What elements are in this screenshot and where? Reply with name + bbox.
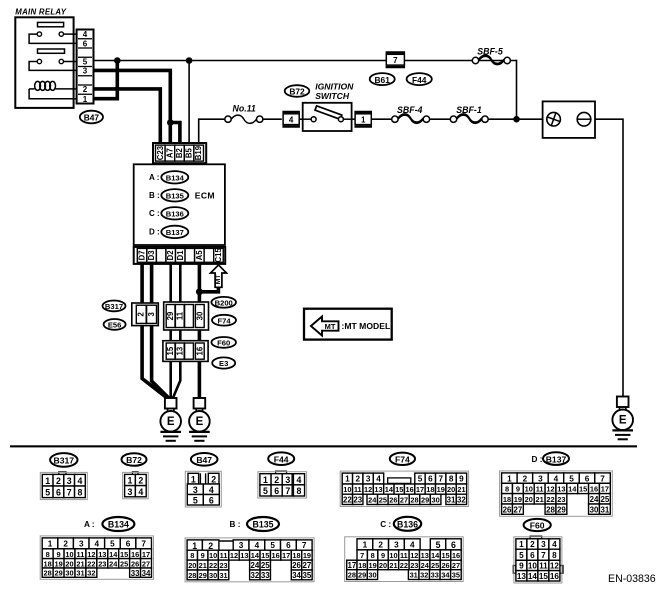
svg-text:33: 33 — [131, 569, 140, 578]
svg-text:F60: F60 — [217, 339, 230, 348]
svg-text:B317: B317 — [105, 302, 123, 311]
svg-text:11: 11 — [400, 551, 408, 560]
svg-text:B200: B200 — [215, 298, 233, 307]
svg-text:2: 2 — [63, 540, 68, 549]
svg-text:11: 11 — [175, 311, 184, 320]
svg-text:20: 20 — [379, 561, 387, 570]
svg-text:17: 17 — [347, 561, 356, 570]
svg-text:1: 1 — [48, 540, 53, 549]
svg-text:B72: B72 — [126, 455, 142, 465]
svg-text:B5: B5 — [185, 147, 194, 158]
svg-text:15: 15 — [579, 485, 587, 494]
svg-text:12: 12 — [546, 485, 554, 494]
svg-text:24: 24 — [368, 495, 377, 504]
svg-text:27: 27 — [514, 505, 523, 514]
svg-text:C :: C : — [149, 209, 160, 218]
svg-text:18: 18 — [358, 561, 366, 570]
svg-text:4: 4 — [554, 474, 559, 483]
svg-text:23: 23 — [557, 495, 565, 504]
svg-text:6: 6 — [209, 495, 214, 505]
svg-text:ECM: ECM — [195, 190, 215, 200]
svg-text:14: 14 — [528, 572, 538, 581]
svg-text:8: 8 — [552, 551, 557, 560]
svg-text:6: 6 — [83, 40, 88, 49]
svg-text:5: 5 — [193, 495, 198, 505]
svg-text:4: 4 — [138, 487, 143, 497]
svg-text:25: 25 — [261, 561, 270, 570]
svg-text:28: 28 — [410, 495, 418, 504]
svg-text:13: 13 — [374, 485, 382, 494]
svg-text:7: 7 — [141, 540, 146, 549]
svg-text:6: 6 — [126, 540, 131, 549]
svg-text:16: 16 — [195, 346, 204, 355]
svg-text:31: 31 — [447, 495, 456, 504]
svg-text:25: 25 — [431, 561, 439, 570]
svg-text:15: 15 — [120, 550, 128, 559]
svg-text:34: 34 — [292, 571, 301, 580]
svg-text:18: 18 — [426, 485, 434, 494]
svg-text:6: 6 — [274, 486, 279, 496]
svg-text:29: 29 — [421, 495, 429, 504]
svg-text:11: 11 — [220, 551, 228, 560]
svg-text:30: 30 — [368, 571, 376, 580]
svg-text:11: 11 — [77, 550, 85, 559]
svg-text:E: E — [167, 416, 175, 428]
svg-text:D7: D7 — [138, 250, 147, 260]
svg-text:14: 14 — [251, 551, 260, 560]
svg-text:5: 5 — [519, 551, 524, 560]
svg-text:B72: B72 — [289, 87, 305, 97]
svg-text::MT MODEL: :MT MODEL — [342, 321, 391, 331]
svg-text:1: 1 — [345, 475, 350, 484]
svg-text:19: 19 — [437, 485, 445, 494]
svg-text:15: 15 — [261, 551, 269, 560]
svg-text:1: 1 — [361, 115, 366, 124]
svg-text:2: 2 — [137, 311, 146, 316]
svg-text:31: 31 — [600, 505, 609, 514]
svg-text:2: 2 — [355, 475, 360, 484]
svg-text:D :: D : — [149, 228, 160, 237]
svg-text:13: 13 — [98, 550, 106, 559]
svg-text:A7: A7 — [165, 148, 174, 158]
svg-text:6: 6 — [56, 488, 61, 498]
svg-text:17: 17 — [282, 551, 290, 560]
svg-text:7: 7 — [393, 56, 398, 65]
svg-text:8: 8 — [297, 486, 302, 496]
svg-text:B137: B137 — [546, 454, 567, 464]
svg-text:B136: B136 — [397, 520, 418, 530]
svg-text:9: 9 — [201, 551, 205, 560]
svg-text:10: 10 — [209, 551, 217, 560]
svg-text:21: 21 — [389, 561, 397, 570]
svg-text:15: 15 — [166, 346, 175, 355]
svg-text:5: 5 — [263, 486, 268, 496]
svg-text:16: 16 — [272, 551, 280, 560]
svg-text:9: 9 — [516, 485, 520, 494]
svg-text:B135: B135 — [166, 191, 185, 200]
svg-text:3: 3 — [67, 476, 72, 486]
svg-text:30: 30 — [209, 571, 217, 580]
svg-text:8: 8 — [449, 475, 454, 484]
svg-text:C23: C23 — [156, 145, 165, 160]
svg-text:22: 22 — [343, 495, 352, 504]
svg-text:5: 5 — [270, 541, 275, 550]
svg-text:5: 5 — [45, 488, 50, 498]
svg-text:7: 7 — [360, 551, 364, 560]
svg-text:D1: D1 — [176, 250, 185, 261]
svg-text:6: 6 — [451, 540, 456, 550]
svg-text:29: 29 — [557, 505, 566, 514]
svg-text:31: 31 — [219, 571, 227, 580]
svg-text:E3: E3 — [219, 359, 228, 368]
svg-text:12: 12 — [87, 550, 95, 559]
svg-text:12: 12 — [410, 551, 418, 560]
svg-text:24: 24 — [250, 561, 259, 570]
svg-text:15: 15 — [441, 551, 449, 560]
svg-text:10: 10 — [525, 485, 533, 494]
svg-text:2: 2 — [530, 540, 535, 549]
svg-text:B2: B2 — [175, 147, 184, 158]
svg-text:11: 11 — [539, 562, 548, 571]
svg-text:B19: B19 — [194, 145, 203, 160]
svg-text:B :: B : — [149, 191, 160, 200]
svg-text:21: 21 — [199, 561, 207, 570]
svg-text:13: 13 — [557, 485, 565, 494]
svg-text:D :: D : — [532, 455, 543, 464]
svg-text:10: 10 — [65, 550, 73, 559]
svg-text:9: 9 — [459, 475, 464, 484]
svg-text:32: 32 — [420, 571, 428, 580]
svg-text:4: 4 — [289, 115, 294, 124]
svg-text:29: 29 — [166, 311, 175, 320]
svg-text:30: 30 — [590, 505, 599, 514]
svg-text:D3: D3 — [147, 250, 156, 261]
svg-text:20: 20 — [65, 559, 73, 568]
svg-text:MT: MT — [325, 322, 336, 331]
svg-text:MAIN RELAY: MAIN RELAY — [15, 7, 66, 16]
svg-text:6: 6 — [585, 474, 590, 483]
svg-text:15: 15 — [539, 572, 549, 581]
svg-text:19: 19 — [514, 495, 522, 504]
svg-text:1: 1 — [45, 476, 50, 486]
svg-text:8: 8 — [77, 488, 82, 498]
svg-text:31: 31 — [76, 569, 84, 578]
svg-text:27: 27 — [142, 559, 150, 568]
svg-text:7: 7 — [67, 488, 72, 498]
svg-text:3: 3 — [79, 540, 84, 549]
svg-text:21: 21 — [457, 485, 465, 494]
svg-text:2: 2 — [208, 541, 213, 551]
svg-text:3: 3 — [538, 474, 543, 483]
svg-text:14: 14 — [385, 485, 394, 494]
svg-text:8: 8 — [46, 550, 50, 559]
svg-text:24: 24 — [109, 559, 118, 568]
svg-text:9: 9 — [57, 550, 61, 559]
svg-text:SBF-4: SBF-4 — [397, 105, 423, 115]
svg-text:3: 3 — [128, 487, 133, 497]
svg-text:SBF-1: SBF-1 — [456, 105, 482, 115]
svg-text:13: 13 — [517, 572, 527, 581]
svg-text:16: 16 — [550, 572, 560, 581]
svg-text:EN-03836: EN-03836 — [608, 573, 656, 585]
svg-text:3: 3 — [394, 541, 399, 550]
svg-text:27: 27 — [452, 561, 460, 570]
svg-text:21: 21 — [536, 495, 544, 504]
svg-text:12: 12 — [364, 485, 372, 494]
svg-text:9: 9 — [519, 562, 524, 571]
svg-text:26: 26 — [389, 495, 397, 504]
svg-text:26: 26 — [131, 559, 139, 568]
svg-text:6: 6 — [530, 551, 535, 560]
svg-text:11: 11 — [536, 485, 544, 494]
svg-text:B137: B137 — [166, 228, 184, 237]
svg-text:11: 11 — [354, 485, 362, 494]
svg-text:4: 4 — [552, 540, 557, 549]
svg-text:10: 10 — [343, 485, 351, 494]
svg-text:C15: C15 — [214, 248, 223, 263]
svg-text:10: 10 — [528, 562, 538, 571]
svg-text:1: 1 — [263, 475, 268, 485]
svg-text:29: 29 — [358, 571, 366, 580]
svg-text:24: 24 — [590, 495, 599, 504]
svg-text:1: 1 — [128, 476, 133, 486]
svg-text:25: 25 — [379, 495, 387, 504]
svg-text:34: 34 — [441, 571, 450, 580]
svg-text:2: 2 — [138, 476, 143, 486]
svg-text:29: 29 — [54, 569, 62, 578]
svg-text:5: 5 — [418, 475, 423, 484]
svg-text:3: 3 — [239, 541, 244, 550]
svg-text:B317: B317 — [54, 456, 75, 466]
svg-text:18: 18 — [292, 551, 300, 560]
svg-text:34: 34 — [142, 569, 151, 578]
svg-text:15: 15 — [395, 485, 403, 494]
svg-text:B136: B136 — [166, 209, 184, 218]
svg-text:16: 16 — [590, 485, 598, 494]
svg-text:A5: A5 — [195, 250, 204, 261]
svg-text:16: 16 — [405, 485, 413, 494]
svg-text:19: 19 — [303, 551, 311, 560]
svg-text:19: 19 — [54, 559, 62, 568]
svg-text:4: 4 — [410, 541, 415, 550]
svg-text:3: 3 — [83, 67, 88, 76]
svg-text:F44: F44 — [274, 454, 289, 464]
svg-text:1: 1 — [191, 474, 196, 484]
svg-text:2: 2 — [523, 474, 528, 483]
svg-text:25: 25 — [120, 559, 128, 568]
svg-text:2: 2 — [83, 85, 88, 94]
svg-text:23: 23 — [410, 561, 418, 570]
svg-text:4: 4 — [255, 541, 260, 550]
svg-text:E: E — [196, 416, 204, 428]
svg-text:20: 20 — [447, 485, 455, 494]
svg-text:28: 28 — [348, 571, 356, 580]
svg-text:2: 2 — [211, 474, 216, 484]
svg-text:13: 13 — [240, 551, 248, 560]
svg-text:28: 28 — [188, 571, 196, 580]
svg-text:8: 8 — [505, 485, 509, 494]
svg-text:1: 1 — [507, 474, 512, 483]
svg-text:E56: E56 — [108, 321, 122, 330]
svg-text:B134: B134 — [166, 173, 185, 182]
svg-text:32: 32 — [250, 571, 259, 580]
svg-text:SWITCH: SWITCH — [315, 91, 350, 101]
svg-text:14: 14 — [109, 550, 118, 559]
svg-text:7: 7 — [438, 475, 443, 484]
svg-text:32: 32 — [457, 495, 466, 504]
svg-text:B :: B : — [230, 520, 241, 529]
svg-text:26: 26 — [441, 561, 449, 570]
svg-text:18: 18 — [44, 559, 52, 568]
svg-text:6: 6 — [428, 475, 433, 484]
svg-text:B47: B47 — [84, 113, 100, 123]
svg-text:17: 17 — [601, 485, 609, 494]
svg-text:23: 23 — [219, 561, 227, 570]
svg-text:1: 1 — [519, 540, 524, 549]
svg-text:17: 17 — [142, 550, 150, 559]
svg-text:3: 3 — [541, 540, 546, 549]
svg-text:A :: A : — [149, 173, 159, 182]
svg-text:13: 13 — [421, 551, 429, 560]
svg-text:24: 24 — [421, 561, 430, 570]
svg-text:28: 28 — [546, 505, 555, 514]
svg-text:3: 3 — [147, 311, 156, 316]
svg-text:12: 12 — [550, 562, 560, 571]
svg-text:22: 22 — [400, 561, 408, 570]
svg-text:18: 18 — [503, 495, 511, 504]
svg-text:3: 3 — [285, 475, 290, 485]
svg-text:7: 7 — [302, 541, 307, 550]
svg-text:8: 8 — [190, 551, 194, 560]
svg-text:No.11: No.11 — [233, 103, 256, 113]
svg-text:6: 6 — [286, 541, 291, 550]
svg-text:B134: B134 — [108, 520, 129, 530]
svg-text:17: 17 — [416, 485, 424, 494]
svg-text:22: 22 — [546, 495, 554, 504]
svg-text:5: 5 — [110, 540, 115, 549]
svg-text:35: 35 — [303, 571, 312, 580]
svg-text:28: 28 — [44, 569, 52, 578]
svg-text:SBF-5: SBF-5 — [477, 46, 503, 56]
svg-text:16: 16 — [131, 550, 139, 559]
svg-text:22: 22 — [209, 561, 217, 570]
svg-text:5: 5 — [83, 58, 88, 67]
svg-text:4: 4 — [376, 475, 381, 484]
svg-text:33: 33 — [431, 571, 439, 580]
svg-text:21: 21 — [76, 559, 84, 568]
svg-text:5: 5 — [436, 540, 441, 550]
svg-text:4: 4 — [83, 30, 88, 39]
svg-text:D2: D2 — [166, 250, 175, 261]
svg-text:7: 7 — [600, 474, 605, 483]
svg-text:16: 16 — [452, 551, 460, 560]
svg-text:4: 4 — [209, 485, 214, 495]
svg-text:30: 30 — [65, 569, 73, 578]
svg-text:B61: B61 — [375, 75, 391, 85]
svg-text:31: 31 — [410, 571, 418, 580]
svg-text:F74: F74 — [217, 316, 231, 325]
svg-text:20: 20 — [525, 495, 533, 504]
svg-text:IGNITION: IGNITION — [315, 81, 354, 91]
svg-text:27: 27 — [400, 495, 408, 504]
svg-text:13: 13 — [175, 346, 184, 355]
svg-text:9: 9 — [381, 551, 385, 560]
svg-text:MT: MT — [215, 274, 222, 285]
svg-text:29: 29 — [199, 571, 207, 580]
svg-text:14: 14 — [568, 485, 577, 494]
svg-text:26: 26 — [292, 561, 301, 570]
svg-text:27: 27 — [303, 561, 312, 570]
svg-text:12: 12 — [230, 551, 238, 560]
svg-text:19: 19 — [369, 561, 377, 570]
svg-text:23: 23 — [353, 495, 362, 504]
svg-text:F60: F60 — [530, 521, 545, 531]
svg-text:4: 4 — [77, 476, 82, 486]
svg-text:5: 5 — [569, 474, 574, 483]
svg-text:7: 7 — [285, 486, 290, 496]
svg-text:23: 23 — [98, 559, 106, 568]
svg-text:7: 7 — [541, 551, 546, 560]
svg-text:14: 14 — [431, 551, 440, 560]
svg-text:1: 1 — [83, 95, 88, 104]
svg-text:8: 8 — [371, 551, 375, 560]
svg-text:3: 3 — [193, 485, 198, 495]
svg-text:22: 22 — [87, 559, 95, 568]
svg-text:4: 4 — [297, 475, 302, 485]
svg-text:2: 2 — [56, 476, 61, 486]
svg-text:33: 33 — [261, 571, 270, 580]
svg-text:C :: C : — [380, 520, 391, 529]
svg-text:10: 10 — [389, 551, 397, 560]
svg-text:3: 3 — [366, 475, 371, 484]
svg-text:30: 30 — [195, 311, 204, 320]
svg-text:1: 1 — [192, 541, 197, 551]
svg-text:2: 2 — [378, 541, 383, 550]
svg-text:30: 30 — [432, 495, 440, 504]
svg-text:26: 26 — [503, 505, 512, 514]
svg-text:20: 20 — [188, 561, 196, 570]
svg-text:F44: F44 — [412, 75, 427, 85]
svg-text:4: 4 — [95, 540, 100, 549]
svg-text:32: 32 — [87, 569, 95, 578]
svg-text:E: E — [619, 415, 627, 427]
svg-text:25: 25 — [600, 495, 609, 504]
svg-text:35: 35 — [452, 571, 460, 580]
svg-text:1: 1 — [363, 541, 368, 550]
svg-text:A :: A : — [84, 520, 95, 529]
svg-text:B47: B47 — [196, 455, 212, 465]
svg-text:F74: F74 — [395, 454, 410, 464]
svg-text:B135: B135 — [252, 520, 273, 530]
svg-text:2: 2 — [274, 475, 279, 485]
